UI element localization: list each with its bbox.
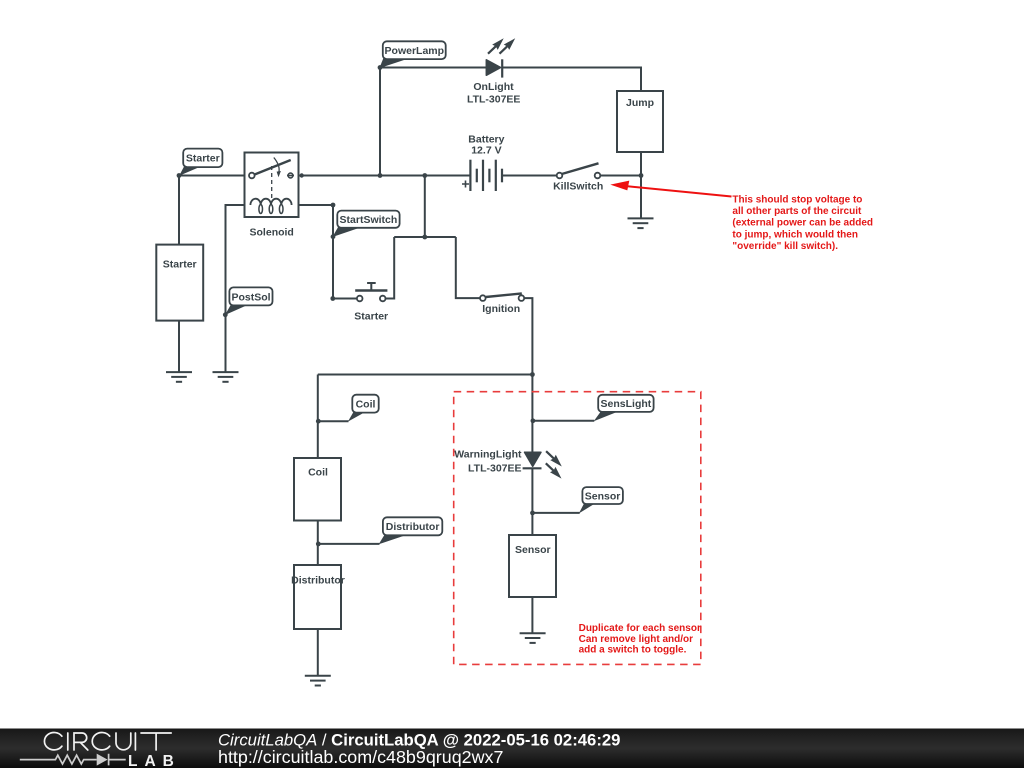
wire horizontal branch: [394, 236, 456, 238]
node ignition-coil junction: [530, 372, 535, 377]
wire killswitch to node: [600, 175, 641, 177]
wire down to Jump: [640, 67, 642, 92]
svg-text:Starter: Starter: [163, 259, 197, 271]
callout PowerLamp: [379, 41, 445, 68]
svg-text:WarningLight: WarningLight: [454, 449, 522, 461]
red annotation text killswitch: [732, 194, 873, 252]
logo resistor-diode: [20, 754, 126, 766]
callout PostSol: [225, 287, 273, 315]
wire ignition down: [524, 298, 532, 374]
resistor-box Distributor: [291, 565, 345, 629]
svg-text:PowerLamp: PowerLamp: [385, 45, 445, 57]
LED D2 WarningLight: [523, 451, 562, 478]
wire solenoid coil left (PostSol): [226, 205, 245, 372]
wire starter node to relay: [179, 175, 250, 177]
resistor-box Jump: [617, 91, 663, 152]
svg-text:Sensor: Sensor: [515, 544, 551, 556]
node solenoid coil corner: [331, 203, 336, 208]
node branch T junction: [422, 235, 427, 240]
svg-text:add a switch to toggle.: add a switch to toggle.: [579, 645, 687, 656]
node Sensor attach: [530, 511, 535, 516]
wire Coil to Distributor: [317, 521, 319, 566]
svg-text:Coil: Coil: [308, 466, 328, 478]
resistor-box Sensor: [509, 535, 556, 597]
node battery rail left: [378, 173, 383, 178]
wire branch to button right: [385, 237, 394, 299]
svg-text:LAB: LAB: [128, 753, 181, 768]
callout Distributor: [318, 517, 442, 544]
wire WarningLight to Sensor box: [531, 468, 533, 535]
node Starter junction: [177, 173, 182, 178]
svg-text:(external power can be added: (external power can be added: [732, 218, 873, 229]
wire node to Starter box: [178, 176, 180, 245]
node pushbutton corner: [330, 296, 335, 301]
ground under Distributor: [305, 676, 331, 686]
node PostSol attach: [223, 312, 228, 317]
node relay output: [300, 173, 304, 177]
ground under Jump: [628, 218, 654, 228]
node battery rail branch: [422, 173, 427, 178]
switch Ignition: [480, 293, 524, 314]
red annotation arrow: [610, 181, 731, 197]
node PowerLamp junction: [378, 65, 383, 70]
wire node down from battery line: [424, 176, 426, 238]
svg-text:12.7 V: 12.7 V: [471, 145, 501, 157]
svg-text:SensLight: SensLight: [601, 398, 652, 410]
pushbutton SW Starter: [354, 283, 388, 322]
svg-text:Sensor: Sensor: [585, 491, 621, 503]
switch KillSwitch: [553, 163, 603, 192]
svg-text:LTL-307EE: LTL-307EE: [467, 93, 520, 105]
svg-text:Coil: Coil: [356, 399, 376, 411]
wire down to WarningLight: [531, 375, 533, 453]
wire Starter box to ground: [178, 321, 180, 372]
callout Coil: [318, 395, 378, 422]
callout Sensor: [532, 487, 623, 513]
svg-text:http://circuitlab.com/c48b9qru: http://circuitlab.com/c48b9qruq2wx7: [218, 747, 503, 767]
svg-text:Starter: Starter: [186, 153, 220, 165]
svg-text:Ignition: Ignition: [482, 303, 520, 315]
LED D1 OnLight: [486, 38, 515, 77]
svg-text:KillSwitch: KillSwitch: [553, 181, 603, 193]
battery B1 12.7V: [462, 160, 502, 191]
resistor-box Starter (motor): [156, 245, 203, 321]
svg-text:Jump: Jump: [626, 97, 654, 109]
wire Sensor box to ground: [531, 597, 533, 633]
ground under Sensor: [520, 633, 546, 643]
callout StartSwitch: [332, 211, 399, 237]
wire down to Coil box: [317, 375, 319, 459]
node SensLight attach: [531, 418, 536, 423]
wire Jump to ground node: [640, 152, 642, 218]
svg-text:"override" kill switch).: "override" kill switch).: [732, 241, 838, 252]
wire top horizontal left of LED: [380, 67, 487, 69]
callout SensLight: [533, 395, 654, 422]
svg-text:PostSol: PostSol: [231, 291, 270, 303]
wire branch to ignition: [456, 237, 480, 298]
wire relay to battery: [294, 175, 471, 177]
svg-text:This should stop voltage to: This should stop voltage to: [732, 194, 862, 205]
logo diode triangle: [97, 754, 108, 766]
svg-text:Duplicate for each sensor: Duplicate for each sensor: [579, 623, 701, 634]
callout Starter: [179, 149, 222, 176]
svg-text:StartSwitch: StartSwitch: [340, 214, 398, 226]
wire top-left vertical: [379, 68, 381, 176]
node Coil attach: [316, 419, 321, 424]
red annotation text duplicate: [579, 623, 701, 655]
footer bar: [0, 729, 1024, 768]
node Distributor attach: [316, 542, 321, 547]
node killswitch-jump junction: [639, 173, 644, 178]
svg-text:OnLight: OnLight: [473, 81, 514, 93]
wire Distributor to ground: [317, 629, 319, 675]
resistor-box Coil: [294, 458, 341, 521]
svg-text:Can remove light and/or: Can remove light and/or: [579, 634, 694, 645]
logo CIRCUIT wordmark: [44, 733, 171, 751]
wire battery to killswitch: [502, 175, 557, 177]
ground under PostSol wire: [213, 372, 239, 382]
svg-text:LTL-307EE: LTL-307EE: [468, 463, 521, 475]
wire solenoid coil right to button: [299, 205, 358, 299]
svg-text:Distributor: Distributor: [291, 574, 345, 586]
red dashed duplicate box: [454, 392, 701, 665]
relay U1 Solenoid: [245, 153, 299, 239]
wire top horizontal right of LED: [502, 67, 642, 69]
wire horizontal to coil branch: [318, 374, 533, 376]
svg-text:Distributor: Distributor: [386, 521, 440, 533]
node StartSwitch attach: [331, 234, 336, 239]
svg-text:Solenoid: Solenoid: [250, 226, 294, 238]
svg-text:all other parts of the circuit: all other parts of the circuit: [732, 206, 862, 217]
ground under Starter: [166, 372, 192, 382]
svg-text:to jump, which would then: to jump, which would then: [732, 229, 858, 240]
svg-text:Starter: Starter: [354, 310, 388, 322]
